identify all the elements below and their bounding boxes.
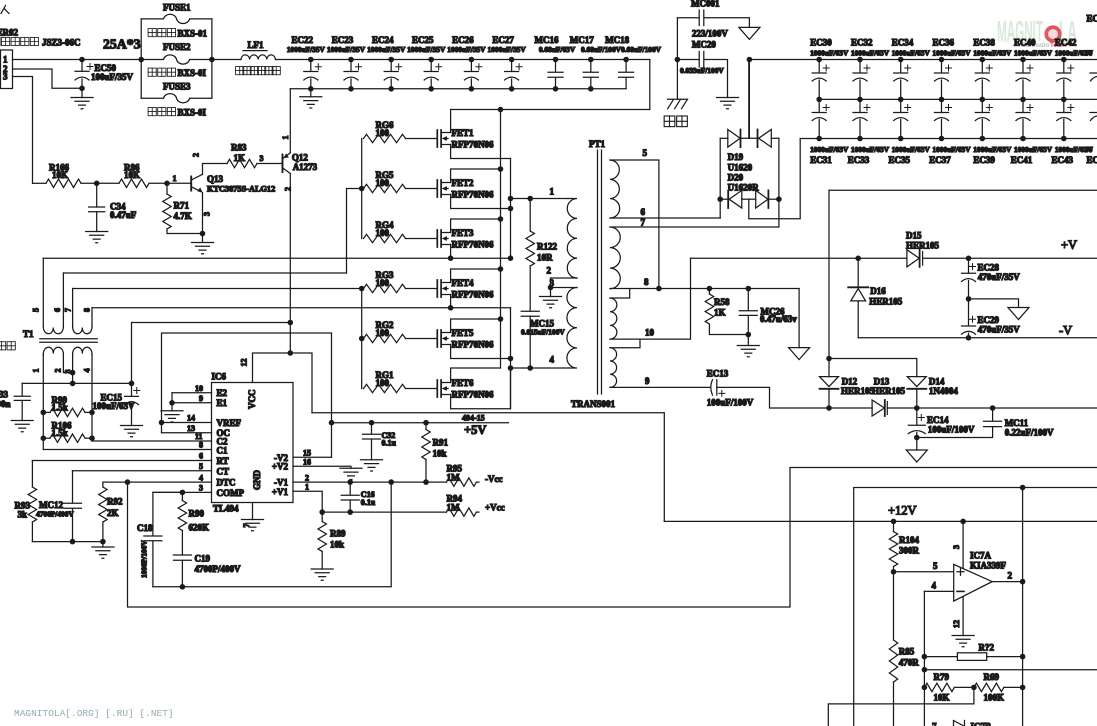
resistor R99 [43,395,92,417]
wire T1 pin5 to bus B [43,257,510,259]
svg-text:2: 2 [1008,571,1013,581]
svg-text:2: 2 [192,153,201,157]
capacitor EC28 [962,258,1021,299]
transformer PT1 secondary winding C (8-10) [610,298,617,339]
wire IC6 pin6 RT [32,460,211,462]
svg-text:1K: 1K [234,153,246,163]
wire T1 pin6 feed to gate bus [347,189,362,274]
svg-text:100K: 100K [984,693,1005,703]
wire W2 rail [854,488,1097,726]
capacitor EC39 [973,99,1012,165]
svg-text:1000uF/63V: 1000uF/63V [851,49,890,58]
fuse FUSE3 [141,82,212,103]
svg-text:1000uF/63V: 1000uF/63V [1014,145,1053,154]
svg-text:MC20: MC20 [692,40,716,50]
svg-text:EC23: EC23 [332,35,354,45]
svg-text:100uF/100V: 100uF/100V [707,398,754,408]
svg-text:EC32: EC32 [851,37,873,47]
svg-text:D20: D20 [728,173,744,183]
ground PT1 center tap [540,288,562,308]
svg-text:1: 1 [3,55,8,65]
wire connector pin3 down to R166 [13,77,33,184]
svg-text:+V: +V [1061,238,1077,252]
svg-text:2: 2 [305,473,309,482]
clipped character 入 (top-left corner) [1,6,9,14]
svg-text:LF1: LF1 [248,40,265,50]
svg-text:D12: D12 [842,377,858,387]
node junction bus B bottom / T1 pin5 wire [508,255,514,261]
svg-text:3: 3 [3,72,8,82]
wire T1 pin6 lead up [62,273,64,327]
svg-text:12: 12 [240,359,249,367]
svg-text:+5V: +5V [464,423,486,437]
svg-text:1N4004: 1N4004 [929,386,958,396]
node junction R99 right [89,410,95,416]
node junction D14 bottom / EC14 [914,405,920,411]
wire D12 branch vertical [828,190,830,376]
ground below EC50 [71,88,93,108]
svg-text:5: 5 [199,462,203,471]
resistor RG3 [362,270,438,293]
triangle ground (EC28/EC29 midpoint) [1008,308,1029,320]
svg-text:BXS-01: BXS-01 [178,28,208,38]
svg-text:+V1: +V1 [272,487,289,497]
svg-text:0.68uF/100V: 0.68uF/100V [621,45,662,54]
svg-text:R?2: R?2 [979,643,995,653]
svg-text:EC38: EC38 [973,37,995,47]
svg-text:MC001: MC001 [691,0,720,9]
wire +12V rail [664,520,1097,522]
capacitor EC41 [1011,99,1053,165]
svg-text:2: 2 [54,369,63,373]
node junction R79/R69 [971,685,977,691]
node junction R69 right on bus [1020,685,1026,691]
svg-text:R71: R71 [174,201,190,211]
transistor FET2 RFP70N06 [437,169,510,209]
resistor R?2 (box style) [924,643,1022,661]
svg-text:VREF: VREF [217,418,242,428]
capacitor MC17 [570,35,622,92]
node junction R106 left [41,435,47,441]
svg-text:470R: 470R [899,658,920,668]
wire capacitor-bank bottom rail [800,138,1097,140]
resistor R79 [924,672,974,703]
svg-text:C1: C1 [217,446,228,456]
svg-text:RFP70N06: RFP70N06 [452,189,494,199]
node junction MC26 bottom [746,332,752,338]
svg-text:D15: D15 [906,231,922,241]
ground below C34 [86,232,108,243]
node junction IC7A pin3 top [960,519,966,525]
wire T1 pin7 lead up [72,289,74,327]
svg-text:E1: E1 [217,398,228,408]
wire main bus LF1 to corner x650 [275,59,649,61]
node junction EC50 top [79,57,85,63]
label 保险座BXS-01 (3) [148,107,206,117]
resistor R86 [97,162,167,187]
connector CER02 body [1,50,13,89]
svg-text:1000uF/63V: 1000uF/63V [932,49,971,58]
wire pin4 feedback vertical [923,591,925,726]
svg-text:R104: R104 [899,535,919,545]
svg-text:GND: GND [252,470,262,491]
svg-text:1000uF/35V: 1000uF/35V [407,45,446,54]
svg-text:9: 9 [645,376,650,386]
diode bridge bottom-left element [720,190,749,208]
capacitor C19 [173,554,241,587]
diode D14 1N4004 [907,377,958,409]
svg-text:4: 4 [550,355,555,365]
fuse FUSE2 [141,42,212,64]
label 耦合变压器 (clipped) [0,342,15,350]
svg-text:KIA339F: KIA339F [970,561,1007,571]
wire bus A (FET upper terminals) [500,110,502,369]
wire IC7A output pin2 [992,581,1022,583]
svg-text:3: 3 [952,545,961,549]
svg-text:3: 3 [203,212,212,216]
capacitor EC43 [1052,99,1094,165]
svg-text:8: 8 [644,277,649,287]
transistor FET6 RFP70N06 [437,368,510,409]
node junction R104/pin5 [891,569,897,575]
svg-text:EC24: EC24 [372,35,394,45]
svg-text:D16: D16 [870,286,886,296]
resistor RG6 [364,120,438,143]
svg-text:1000uF/63V: 1000uF/63V [892,49,931,58]
node junction D12 top / D14 feed [826,356,832,362]
diode D20 (bridge top-right) [758,130,779,148]
node junction EC15 top [129,381,135,387]
capacitor MC11 [917,405,1054,437]
node junction EC28/EC29 midpoint [966,296,972,302]
chassis ground 机壳 [664,99,687,126]
node junction R89 top [319,509,325,515]
wire PT1 pin9 to EC13 [610,386,711,388]
resistor R90 [178,492,209,555]
capacitor EC22 [287,35,326,92]
resistor R83 [227,143,283,168]
wire IC6 pin10 E2 [172,392,212,394]
wire bridge right vertical [778,138,780,227]
resistor RG4 [364,220,438,243]
wire IC6 pin5 CT [73,470,212,472]
wire T1 pin1 lead down to C1 wire [42,355,44,450]
wire R79/R69 junction to IC7B [828,687,974,726]
svg-text:10R: 10R [537,253,553,263]
svg-text:10K: 10K [52,170,68,180]
svg-text:IC7A: IC7A [970,551,992,561]
svg-text:RFP70N06: RFP70N06 [452,339,494,349]
wire top return rail to right edge [829,189,1097,191]
svg-text:100n: 100n [0,399,11,409]
node junction bus B2 FET5 source [508,356,514,362]
ground below R92 [92,542,114,559]
node junction gate bus RG5 [359,186,365,192]
node junction R91 bottom on -Vcc wire [423,479,429,485]
svg-text:TL494: TL494 [213,504,239,514]
node junction bus A FET3 [498,216,504,222]
wire PT1 pin6 to bridge [610,217,720,219]
svg-text:IC7B: IC7B [971,722,992,726]
ground below IC7A pin12 [952,636,974,647]
node junction R?2 right on bus [1020,654,1026,660]
node junction gate bus RG2 [359,336,365,342]
svg-text:R91: R91 [433,438,449,448]
wire gate bus RG6-RG4 [361,139,363,239]
svg-text:4: 4 [83,369,92,373]
diode bridge bottom-right element [749,190,779,208]
wire IC6 pin16 stub to ground [293,466,351,468]
wire bus B2 (FET4-6 lower terminals) [510,308,512,409]
svg-text:7: 7 [64,308,73,312]
capacitor MC20 [675,40,728,98]
wire +5V rail [332,422,509,424]
svg-text:0.22uF/100V: 0.22uF/100V [1005,428,1054,438]
node junction bridge bottom-left [717,196,723,202]
svg-text:100uF/100V: 100uF/100V [928,425,975,435]
wire PT1 pin5 [610,160,659,289]
svg-text:MC11: MC11 [1005,418,1029,428]
svg-text:EC26: EC26 [452,35,474,45]
op-amp IC7A KIA339F [954,551,1007,602]
svg-text:8: 8 [83,308,92,312]
svg-text:RT: RT [217,456,229,466]
svg-text:VCC: VCC [247,390,257,410]
node junction on pin4 feedback [922,667,928,673]
capacitor MC15 [521,311,565,368]
svg-text:EC14: EC14 [927,415,949,425]
resistor R104 [889,521,919,571]
svg-text:R89: R89 [330,529,346,539]
svg-text:CER02: CER02 [0,28,19,38]
node junction bus A FET2 [498,166,504,172]
svg-text:BXS-0I: BXS-0I [178,107,207,117]
svg-text:HER105: HER105 [872,386,906,396]
capacitor EC26 [447,35,486,92]
wire IC6 pin13 OC [162,432,212,434]
capacitor EC27 [488,35,527,92]
triangle ground below EC14 [906,450,927,462]
transformer T1 secondary winding 5-6 [43,327,63,334]
capacitor EC32 [851,37,890,102]
node junction R99 left [41,410,47,416]
svg-text:13: 13 [187,424,195,433]
svg-text:1000uF/63V: 1000uF/63V [892,145,931,154]
node junction T1 pins2-3 [70,370,76,376]
wire Q13 emitter down [202,193,204,234]
svg-text:RFP70N06: RFP70N06 [452,389,494,399]
node junction C16 bottom on +Vcc wire [347,509,353,515]
transformer T1 primary winding 1-2 [43,347,63,354]
capacitor EC33 [848,99,890,165]
svg-text:1000uF/63V: 1000uF/63V [810,49,849,58]
svg-text:KTC3875S-ALG12: KTC3875S-ALG12 [207,185,275,194]
resistor RG1 [364,370,438,393]
svg-text:D19: D19 [728,152,744,162]
svg-text:-Vcc: -Vcc [485,474,503,484]
svg-text:4: 4 [199,473,203,482]
svg-text:FET2: FET2 [452,178,475,188]
svg-text:EC27: EC27 [492,35,514,45]
svg-text:C18: C18 [137,523,153,533]
resistor R93 [15,461,37,542]
svg-text:4: 4 [932,581,937,591]
node junction pin14 on VREF riser [159,420,165,426]
node junction COMP node [180,490,186,496]
ground below MC26 [737,335,759,357]
ground below Q13 emitter [192,234,214,254]
capacitor EC38 [973,37,1012,102]
node junction W2 output bus [1020,485,1026,491]
fuse FUSE1 [141,3,212,24]
svg-text:D13: D13 [874,377,890,387]
capacitor C16 [341,479,376,512]
svg-text:0.1u: 0.1u [361,498,376,507]
capacitor EC31 [810,99,849,165]
node junction C19 bottom [180,584,186,590]
wire PT1 pin8 (center tap net) [610,288,799,290]
node junction R122 top [527,196,533,202]
wire T1 pin8 lead up [91,308,93,327]
node junction output on bus [1020,579,1026,585]
ground at pin16 [340,468,362,479]
svg-text:C33: C33 [0,390,8,400]
node junction EC29 bottom [966,335,972,341]
svg-text:HER105: HER105 [869,297,903,307]
capacitor EC44 partial at right edge [1085,14,1097,166]
node junction EC14/MC11 ground stem [914,435,920,441]
svg-text:1: 1 [173,174,177,183]
svg-text:MC17: MC17 [570,35,594,45]
wire W1 DTC to comparator section [128,468,1097,608]
watermark MAGNITOLA (top right) [997,16,1077,50]
svg-text:A1273: A1273 [293,162,318,172]
svg-text:1000uF/63V: 1000uF/63V [973,49,1012,58]
svg-text:14: 14 [187,414,195,423]
transformer PT1 primary lower winding [567,288,577,369]
wire IC6 pin14 VREF [162,422,212,424]
node junction pin5/pin8 [656,286,662,292]
svg-text:D14: D14 [929,377,945,387]
svg-text:3: 3 [199,484,203,493]
node junction R106 right [89,435,95,441]
node junction FET4 source on pin8 wire [448,305,454,311]
ground at rail left end [300,89,322,108]
svg-text:U1620: U1620 [728,163,753,173]
svg-text:12: 12 [952,620,961,628]
transformer PT1 secondary winding A (5-6) [610,160,620,218]
svg-text:10K: 10K [124,170,140,180]
svg-text:494-15: 494-15 [462,413,485,422]
capacitor C34 [89,183,137,231]
resistor R91 [422,420,449,482]
transformer T1 core [40,339,97,343]
node junction gate bus RG3 [359,286,365,292]
wire T1 pin8 to bus B2 [92,307,511,309]
svg-text:HER105: HER105 [841,386,875,396]
node junction R?2 left [922,654,928,660]
wire Q12 collector down to VCC node [289,174,291,353]
svg-text:EC28: EC28 [978,262,1000,272]
capacitor EC34 [892,37,931,102]
wire PT1 pin7 to bridge [610,226,779,228]
wire -V rail [858,337,1097,339]
node junction R92 bottom [100,539,106,545]
transistor FET5 RFP70N06 [437,319,510,359]
wire capacitor-bank middle rail [819,98,1097,100]
node junction bus B FET2 source [508,206,514,212]
svg-text:EC: EC [1087,155,1097,165]
transistor FET4 RFP70N06 [437,269,500,308]
wire FET top rail [451,109,650,111]
svg-text:0.015uF/100V: 0.015uF/100V [521,327,565,336]
svg-text:EC39: EC39 [973,155,995,165]
wire winding C top to pin8 net [610,289,630,299]
node junction bus B2 node4 [508,365,514,371]
svg-text:100uF/63V: 100uF/63V [93,401,136,411]
connector CER02 chinese label 芯接线端子 JSZ3-06C [0,37,81,47]
triangle ground below MC001 [739,27,760,39]
svg-text:2K: 2K [107,508,119,518]
capacitor MC18 [605,35,662,89]
capacitor EC42 [1055,37,1094,102]
ground below MC20 [717,98,739,109]
resistor R94 [446,494,479,517]
svg-text:1000uF/63V: 1000uF/63V [973,145,1012,154]
svg-text:EC37: EC37 [929,155,951,165]
svg-text:6: 6 [53,308,62,312]
ground below EC15 [121,426,143,437]
svg-text:1000uF/63V: 1000uF/63V [1014,49,1053,58]
wire IC6 pin9 E1 [172,393,212,403]
wire EC15 node up to Q12 collector [132,323,291,384]
wire fuse box to LF1 [212,59,241,61]
svg-text:EC43: EC43 [1052,155,1074,165]
wire T1 pin5 lead up [42,258,44,326]
capacitor EC23 [327,35,366,92]
capacitor EC29 [962,299,1021,338]
ground below C32 [361,460,383,471]
node junction -V1 riser [388,479,394,485]
wire T1 pin4 lead down to C2 wire [91,355,93,442]
svg-text:HER105: HER105 [906,241,940,251]
wire IC6 pin3 COMP [153,491,212,493]
capacitor MC16 [535,35,576,92]
svg-text:EC22: EC22 [292,35,314,45]
svg-text:EC40: EC40 [1014,37,1036,47]
wire VCC run to +12V corner [312,413,664,522]
svg-text:PT1: PT1 [589,139,606,149]
wire -V1 net down to compensation return [153,482,391,587]
svg-text:EC42: EC42 [1055,37,1077,47]
wire D14 feed [829,359,917,377]
svg-text:2: 2 [547,266,552,276]
node junction bus A FET5 [498,316,504,322]
svg-text:C19: C19 [195,554,211,564]
wire MC001/MC20 left vertical to chassis [676,18,678,100]
capacitor EC35 [888,99,930,165]
svg-text:EC36: EC36 [933,37,955,47]
transistor FET1 RFP70N06 [437,110,510,159]
svg-text:-V: -V [1059,324,1072,338]
svg-text:EC29: EC29 [978,315,1000,325]
svg-text:IC6: IC6 [212,372,227,382]
svg-text:R58: R58 [714,297,730,307]
capacitor C32 [363,420,397,460]
svg-text:R79: R79 [934,672,950,682]
svg-text:2: 2 [284,187,293,191]
svg-text:E2: E2 [217,388,228,398]
